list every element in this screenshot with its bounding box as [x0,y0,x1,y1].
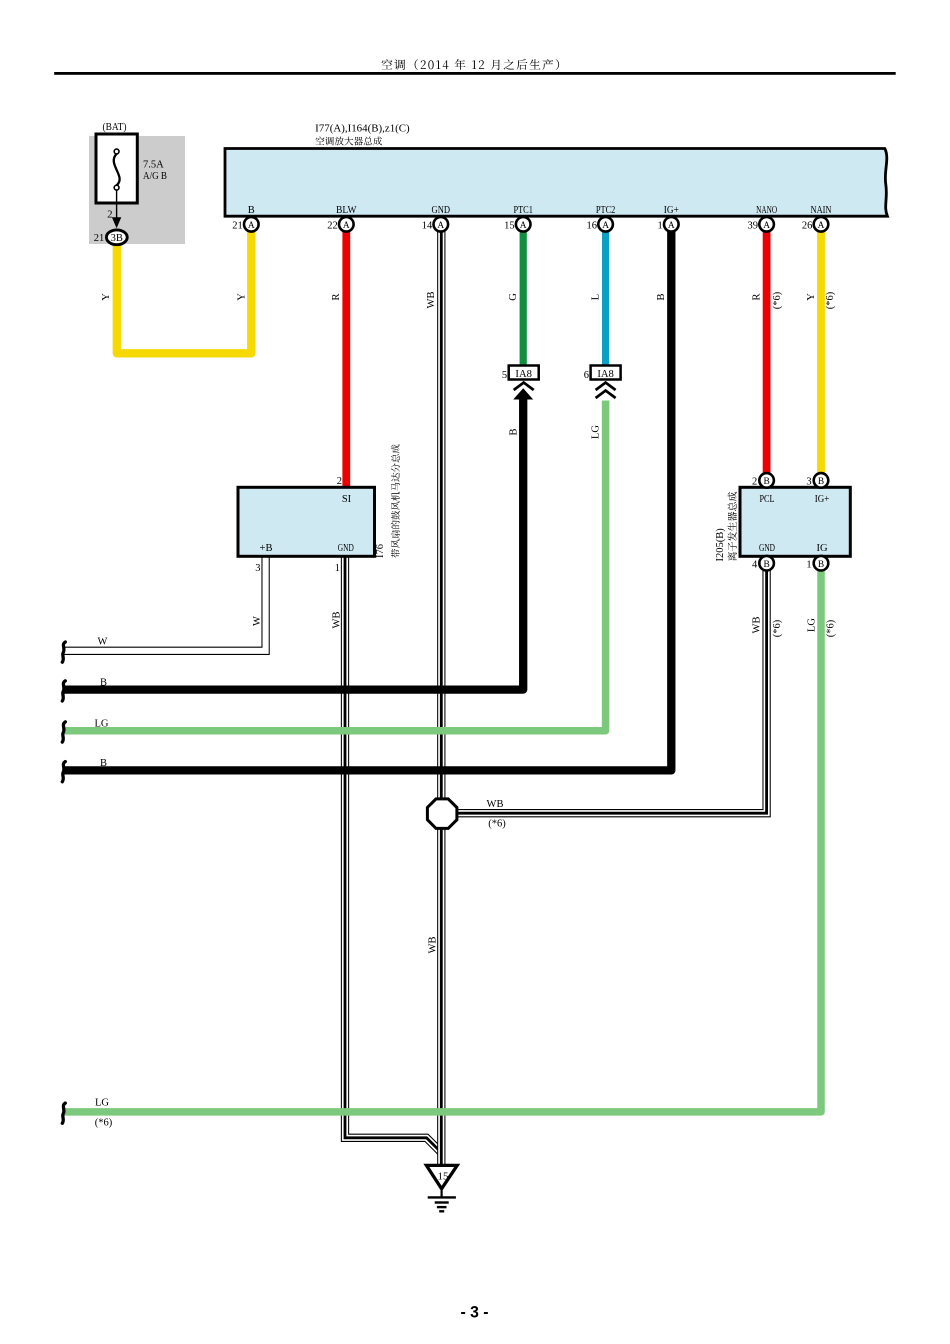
svg-text:(*6): (*6) [826,619,837,637]
connector pin 26(A) NAIN [814,217,829,232]
svg-text:21: 21 [232,221,243,232]
svg-text:A: A [668,221,675,231]
svg-text:B: B [656,293,667,300]
svg-text:Y: Y [101,293,112,301]
svg-text:R: R [752,293,763,300]
svg-text:B: B [100,678,107,689]
node 21 3B battery feed [106,230,127,245]
svg-text:WB: WB [426,292,437,309]
connector pin 16(A) PTC2 [598,217,613,232]
wire Y amplifier pin 26 NAIN to ion generator IG+ [817,231,825,475]
wire B amplifier pin 1 IG+ [64,231,671,770]
svg-text:2: 2 [752,477,757,488]
svg-text:26: 26 [802,221,813,232]
svg-text:- 3 -: - 3 - [461,1303,489,1322]
svg-text:2: 2 [107,210,112,221]
svg-text:B: B [508,428,519,435]
wire R amplifier pin 22 to blower SI [342,231,350,488]
svg-text:B: B [818,560,824,570]
svg-text:G: G [508,293,519,301]
arrow chevrons below IA8-5 [514,383,534,390]
svg-text:+B: +B [260,543,273,554]
svg-text:4: 4 [752,560,758,571]
svg-text:(*6): (*6) [95,1117,113,1128]
svg-text:A: A [248,221,255,231]
wire break symbol LG [62,722,65,742]
svg-text:IG: IG [816,543,827,554]
svg-text:1: 1 [806,560,811,571]
svg-text:LG: LG [95,1097,109,1108]
svg-text:15: 15 [504,221,515,232]
fuse F 7.5A A/G B [96,134,137,203]
vertical label 带风扇的鼓风机马达分总成 [391,444,400,557]
svg-text:NAIN: NAIN [811,205,832,216]
svg-text:5: 5 [502,370,507,381]
svg-text:IG+: IG+ [815,494,830,505]
svg-text:W: W [252,616,263,626]
svg-text:WB: WB [332,612,343,629]
svg-text:B: B [100,758,107,769]
svg-text:(*6): (*6) [772,619,783,637]
connector pin 21(A) B [244,217,259,232]
svg-text:A: A [343,221,350,231]
connector pin 4(B) ion generator [759,556,774,571]
svg-text:I76: I76 [375,544,386,558]
svg-text:3: 3 [255,563,260,574]
blower motor block I76 带风扇的鼓风机马达分总成 [238,487,375,556]
svg-text:I77(A),I164(B),z1(C): I77(A),I164(B),z1(C) [315,123,410,135]
svg-text:(*6): (*6) [488,819,506,830]
connector IA8 pin 6 [591,366,621,380]
connector pin 14(A) GND [434,217,449,232]
svg-text:B: B [818,477,824,487]
svg-text:PCL: PCL [760,494,775,505]
connector pin 15(A) PTC1 [516,217,531,232]
svg-text:A: A [818,221,825,231]
svg-text:14: 14 [422,221,433,232]
svg-text:BLW: BLW [336,205,357,216]
ECU block 空调放大器总成 I77(A),I164(B),z1(C) [225,149,887,217]
svg-text:(BAT): (BAT) [103,122,127,133]
svg-text:B: B [763,560,769,570]
svg-text:6: 6 [584,370,589,381]
svg-text:1: 1 [657,221,662,232]
svg-text:WB: WB [427,937,438,954]
svg-text:2: 2 [337,476,342,487]
connector IA8 pin 5 [509,366,539,380]
wire G amplifier pin 15 to connector IA8-5 [520,231,527,366]
svg-text:A: A [520,221,527,231]
svg-text:WB: WB [487,799,504,810]
wire R amplifier pin 39 NANO to ion generator PCL [763,231,771,475]
svg-text:PTC2: PTC2 [596,205,616,216]
svg-text:B: B [763,477,769,487]
vertical label 离子发生器总成 [728,492,737,561]
svg-text:39: 39 [748,221,759,232]
svg-text:GND: GND [759,543,775,554]
svg-text:3B: 3B [111,233,123,244]
svg-text:NANO: NANO [756,205,777,216]
connector pin 1(A) IG+ [664,217,679,232]
title 空调（2014 年 12 月之后生产） [382,59,560,70]
wire WB from blower motor GND [345,558,441,1153]
svg-text:3: 3 [806,477,811,488]
wire LG from connector IA8-6 [64,401,606,731]
svg-text:GND: GND [338,543,354,554]
connector pin 2(B) ion generator [759,473,774,488]
wire break symbol LG [62,1103,65,1123]
ground symbol 15 [426,1165,457,1211]
wire break symbol B [62,681,65,701]
svg-text:IA8: IA8 [515,369,532,380]
svg-text:A/G B: A/G B [143,171,167,182]
svg-text:I205(B): I205(B) [715,528,726,562]
wire B from connector IA8-5 arrow [64,395,523,690]
connector pin 1(B) ion generator [814,556,829,571]
svg-text:GND: GND [432,205,451,216]
svg-text:W: W [98,637,108,648]
svg-text:Y: Y [236,293,247,301]
wire Y battery to amplifier pin 21 [117,231,252,353]
svg-text:WB: WB [752,617,763,634]
svg-text:PTC1: PTC1 [513,205,533,216]
connector pin 3(B) ion generator [814,473,829,488]
svg-text:15: 15 [438,1170,450,1182]
wire L amplifier pin 16 to connector IA8-6 [602,231,609,366]
wire W from blower motor +B [64,558,266,651]
svg-text:7.5A: 7.5A [143,160,164,171]
label 空调放大器总成 [316,136,382,145]
connector pin 22(A) BLW [339,217,354,232]
svg-text:SI: SI [342,494,352,505]
svg-text:LG: LG [591,425,602,439]
svg-text:B: B [248,205,255,216]
svg-text:L: L [591,294,602,300]
connector pin 39(A) NANO [759,217,774,232]
svg-text:A: A [602,221,609,231]
svg-text:IG+: IG+ [664,205,679,216]
svg-text:A: A [437,221,444,231]
ion generator block I205(B) 离子发生器总成 [740,487,850,556]
svg-text:16: 16 [587,221,598,232]
wire WB from ion generator GND to junction [455,570,767,814]
svg-text:(*6): (*6) [825,291,836,309]
svg-text:(*6): (*6) [772,291,783,309]
svg-text:22: 22 [327,221,338,232]
svg-text:IA8: IA8 [597,369,614,380]
svg-text:Y: Y [806,293,817,301]
svg-text:A: A [763,221,770,231]
wire WB main ground from amplifier GND [437,231,445,1166]
junction node octagon WB [427,799,457,829]
wire break symbol W [62,642,65,662]
svg-text:1: 1 [335,563,340,574]
svg-text:21: 21 [94,233,105,244]
wire fuse to node 3B with pin 2 [116,190,118,220]
svg-text:R: R [331,293,342,300]
svg-text:LG: LG [95,719,109,730]
svg-text:LG: LG [806,618,817,632]
header rule [54,72,896,75]
arrow chevrons below IA8-6 [596,383,616,398]
battery area gray panel [89,136,185,244]
wire break symbol B [62,762,65,782]
wire LG ion generator IG to left [64,570,821,1112]
arrow into node 3B [112,217,121,228]
